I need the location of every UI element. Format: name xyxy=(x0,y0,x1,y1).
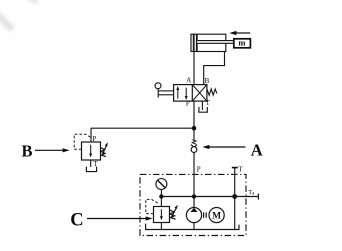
valve B internal arrow xyxy=(89,145,92,158)
directional valve U1 body xyxy=(174,85,207,102)
relief valve C body xyxy=(154,207,170,223)
svg-text:m: m xyxy=(238,38,245,48)
svg-text:P: P xyxy=(197,166,201,174)
reservoir line xyxy=(146,224,239,230)
wire A-port to cylinder cap end xyxy=(193,52,195,85)
valve B spring with adjust arrow xyxy=(101,142,108,156)
tank under valve xyxy=(199,107,207,112)
pressure gauge xyxy=(156,179,167,197)
wire check valve to pump xyxy=(193,153,195,197)
mass m box xyxy=(234,38,251,48)
wire B-port to cylinder rod end (stepped) xyxy=(204,52,225,85)
Ta tap line xyxy=(235,196,259,198)
valve port labels xyxy=(186,76,211,107)
tank under valve B xyxy=(86,167,96,172)
valve B port labels xyxy=(92,135,98,168)
svg-text:T: T xyxy=(238,166,243,174)
manifold line xyxy=(161,196,234,198)
cylinder piston xyxy=(194,34,197,51)
T return line xyxy=(234,168,236,230)
cylinder body xyxy=(191,34,226,51)
valve B tank drop xyxy=(90,160,92,167)
check valve A: spring xyxy=(192,140,196,144)
relief valve C pilot (dashed) xyxy=(146,199,159,213)
wire junction to valve B riser xyxy=(91,127,194,129)
svg-text:B: B xyxy=(22,141,33,160)
svg-text:T: T xyxy=(206,99,211,107)
relief valve C internal arrow xyxy=(160,209,163,220)
svg-text:C: C xyxy=(70,211,83,231)
junction node xyxy=(192,126,197,131)
T return line top cap xyxy=(232,167,238,169)
relief valve C tank drop xyxy=(160,223,162,230)
node at pump xyxy=(192,194,196,198)
check valve A: seat xyxy=(191,145,197,148)
valve B pilot line (dashed) xyxy=(74,134,91,149)
pump feed line xyxy=(193,197,195,208)
shaft coupling xyxy=(204,212,207,217)
valve T-port drop xyxy=(201,101,203,110)
piston rod xyxy=(197,41,234,44)
svg-text:T: T xyxy=(93,160,98,168)
node at T line xyxy=(232,194,237,199)
svg-text:M: M xyxy=(212,211,221,221)
valve left-position arrows xyxy=(176,86,187,100)
svg-text:P: P xyxy=(92,135,96,143)
svg-text:B: B xyxy=(205,77,210,85)
svg-text:Ta: Ta xyxy=(248,189,255,197)
relief valve C riser xyxy=(160,197,162,207)
arrow above mass (pointing left) xyxy=(229,31,250,35)
pump suction drop xyxy=(193,223,195,230)
valve B (sequence valve) body xyxy=(82,142,101,160)
valve pushbutton actuator xyxy=(155,83,174,98)
valve return spring xyxy=(207,89,217,95)
valve right-position crossed paths xyxy=(193,85,207,101)
scan smudge top-left xyxy=(0,0,39,32)
svg-text:A: A xyxy=(251,140,263,159)
wire P drop to check valve xyxy=(193,101,195,140)
relief valve C spring xyxy=(170,205,178,219)
node at gauge xyxy=(159,194,163,198)
motor M xyxy=(209,208,224,223)
pump P1 xyxy=(186,208,201,223)
check valve A: ball xyxy=(191,147,197,153)
power unit enclosure (dash-dot) xyxy=(140,174,246,235)
svg-text:P: P xyxy=(186,99,190,107)
svg-text:A: A xyxy=(186,76,191,84)
